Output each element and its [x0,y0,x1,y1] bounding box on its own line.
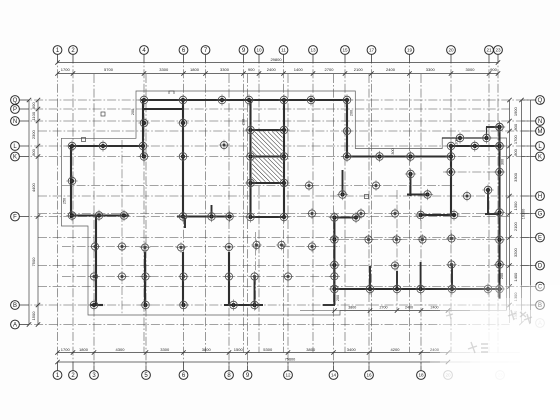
core wall mid1 [250,155,286,157]
svg-text:800: 800 [513,148,518,155]
pile column construction line x=122 [121,140,123,315]
axis bubble 6 top [179,46,188,63]
axis bubble 14 bottom [329,362,338,379]
pile row construction line y=185.5 [62,185,455,187]
svg-text:1100: 1100 [31,111,36,120]
grid line 21 (vertical axis x=489.0) [488,55,490,353]
svg-text:200: 200 [336,295,340,301]
svg-text:2100: 2100 [513,221,518,231]
svg-text:5700: 5700 [104,67,114,72]
wall stub above C x452 [451,266,453,289]
grid line A (horizontal axis y=324.5) [20,324,510,326]
svg-text:1800: 1800 [190,67,200,72]
axis bubble E right [522,233,545,242]
wall Q top [141,99,348,101]
svg-text:3000: 3000 [466,67,476,72]
svg-text:21: 21 [486,48,492,53]
faint axis bubble 20 bottom [444,371,453,380]
svg-text:1500: 1500 [31,311,36,321]
pile row construction line y=172 right [443,171,503,173]
grid line H (horizontal axis y=196.0) [38,195,536,197]
svg-text:H: H [538,194,542,200]
axis bubble 13 top [309,46,318,63]
svg-text:900: 900 [248,67,255,72]
axis bubble 10 top [255,46,264,63]
pile column construction line x=255.5 [255,232,257,310]
axis bubble P left [11,105,29,114]
grid line G (horizontal axis y=213.5) [38,213,536,215]
wall L right wing [450,145,501,147]
svg-text:19: 19 [407,48,413,53]
pile column construction line x=397 [396,190,398,310]
label 300 right edge [501,159,505,165]
label 300 near K wall [391,148,395,154]
svg-text:13: 13 [310,48,316,53]
axis bubble N left [11,117,29,126]
axis bubble N right [522,117,545,126]
core hatch upper cell [252,132,283,156]
svg-text:F: F [13,215,17,221]
axis bubble 4 top [140,46,149,63]
svg-text:18: 18 [418,373,424,378]
grid line 10 (vertical axis x=259.0) [258,55,260,353]
svg-text:Q: Q [13,98,18,104]
svg-text:800: 800 [513,123,518,130]
svg-text:3300: 3300 [160,347,170,352]
svg-text:2700: 2700 [380,306,388,310]
wall P step [143,108,183,110]
svg-text:200: 200 [455,138,459,144]
axis bubble K right [522,152,545,161]
wall K right [347,155,452,157]
svg-text:75600: 75600 [285,357,296,361]
svg-text:4200: 4200 [391,347,401,352]
svg-text:P: P [13,107,17,113]
wall vertical x183 lower [182,252,184,306]
wall vertical x451 [450,146,452,215]
wall H stub [407,194,428,196]
free pile symbols [89,126,472,282]
small square marker near H [365,195,369,199]
wall G stair stub [485,213,500,215]
axis bubble 2 top [69,46,78,63]
svg-text:2100: 2100 [354,67,364,72]
wall vertical axis4 [142,99,144,158]
wall G left stub [334,217,356,219]
svg-text:1800: 1800 [79,347,89,352]
svg-text:1500: 1500 [234,347,244,352]
grid line 20 (vertical axis x=451.0) [450,55,452,353]
svg-text:900: 900 [31,102,36,109]
wall right wing upper [486,126,500,128]
svg-text:2400: 2400 [405,306,413,310]
wall vertical x334 long [333,216,335,305]
svg-text:3300: 3300 [426,67,436,72]
axis bubble M right [522,127,545,136]
svg-text:K: K [13,155,17,161]
svg-text:2700: 2700 [325,67,335,72]
svg-text:1700: 1700 [61,347,71,352]
grid line 11 (vertical axis x=283.5) [283,55,285,353]
grid line 12 (vertical axis x=288.0) [287,74,289,371]
svg-text:Q: Q [538,98,543,104]
svg-text:N: N [13,119,17,125]
svg-text:4300: 4300 [116,347,126,352]
grid line M (horizontal axis y=131.0) [38,130,536,132]
grid line 23 (vertical axis x=498.0) [497,55,499,353]
axis bubble 20 top [447,46,456,63]
axis bubble 5 bottom [142,362,151,379]
axis bubble B right [522,301,545,310]
axis bubble Q left [11,96,29,105]
wall vertical axis15 upper [346,99,348,158]
svg-text:900: 900 [490,67,497,72]
grid line 9 (vertical axis x=243.5) [243,55,245,353]
label 200 near axis4 [131,109,135,115]
label 200 near x334 wall [336,295,340,301]
wall B stub x322 [323,304,335,306]
svg-text:2400: 2400 [267,67,277,72]
axis bubble 16 bottom [365,362,374,379]
axis bubble 7 top [201,46,210,63]
watermark fade bottom-right [430,285,560,420]
core wall right [283,100,285,218]
wall vertical x229 lower [228,252,230,306]
pile row construction line y=239.5 [340,239,503,241]
svg-text:200: 200 [350,110,354,116]
axis bubble L left [11,142,29,151]
svg-text:2300: 2300 [31,129,36,139]
svg-text:D: D [538,264,543,270]
grid line N (horizontal axis y=121.0) [20,120,536,122]
axis bubble 18 bottom [417,362,426,379]
faint axis bubble 23 bottom [496,371,505,380]
svg-text:3800: 3800 [202,347,212,352]
wall B left [90,304,103,306]
left bay dimension texts (rotated) [31,102,36,321]
svg-text:3400: 3400 [347,347,357,352]
grid line 6 (vertical axis x=183.5) [183,55,185,371]
inner bottom dimension chain y=310.5 [300,306,450,313]
axis bubble C right [522,282,545,291]
core wall top [250,129,286,131]
right dimension chain lines [507,98,530,325]
axis bubble 9 bottom [243,362,252,379]
axis bubble H right [522,192,545,201]
svg-text:800: 800 [31,148,36,155]
svg-text:1900: 1900 [513,106,518,116]
svg-text:10: 10 [256,48,262,53]
wall right edge [498,126,500,299]
wall stub above C x397 [396,271,398,289]
grid line 8 (vertical axis x=229.0) [228,74,230,371]
wall vertical axis6 [182,99,184,218]
label 200 right edge lower [500,273,504,279]
axis bubble L right [522,142,545,151]
svg-text:3800: 3800 [306,347,316,352]
wall stub above C x420 [420,262,422,289]
svg-text:17: 17 [369,48,375,53]
svg-text:16: 16 [366,373,372,378]
svg-text:23: 23 [495,48,501,53]
label 200 right wing [455,138,459,144]
svg-text:7500: 7500 [31,257,36,267]
small square marker near N [101,112,105,116]
grid line 14 (vertical axis x=333.5) [333,74,335,371]
svg-text:A: A [13,323,17,329]
label 200 near core [242,119,246,125]
axis bubble 12 bottom [284,362,293,379]
grid line Q (horizontal axis y=100.0) [20,99,536,101]
pile row construction line y=276.5 [62,276,340,278]
svg-text:200: 200 [242,119,246,125]
svg-text:K: K [538,155,542,161]
svg-text:1700: 1700 [61,67,71,72]
svg-text:E: E [538,236,542,242]
svg-text:4400: 4400 [31,182,36,192]
wall vertical left edge [70,145,72,218]
axis bubble 23 top [494,46,503,63]
label 200 near axis15 corner [350,110,354,116]
grid line 7 (vertical axis x=205.5) [205,55,207,353]
grid line F (horizontal axis y=216.5) [20,216,510,218]
axis bubble D right [522,261,545,270]
axis bubble 2 bottom [69,362,78,379]
wall stair x342 [342,170,344,195]
grid line L (horizontal axis y=146.0) [20,145,536,147]
axis bubble F left [11,212,29,221]
svg-text:300: 300 [501,159,505,165]
svg-text:3200: 3200 [513,247,518,257]
svg-text:3300: 3300 [220,67,230,72]
grid line 5 (vertical axis x=146.0) [145,74,147,371]
wall vertical x410 [410,174,412,196]
axis bubble 17 top [367,46,376,63]
label 250 left wing [63,198,67,204]
wall stub above F x211 [211,205,213,216]
grid line 13 (vertical axis x=313.0) [312,55,314,353]
axis bubble G right [522,209,545,218]
axis bubble 11 top [279,46,288,63]
axis bubble B left [11,301,29,310]
axis bubble 1 bottom [53,362,62,379]
svg-text:1700: 1700 [513,134,518,144]
grid line D (horizontal axis y=265.5) [38,265,536,267]
grid line 1 (vertical axis x=57.5) [57,55,59,371]
grid line E (horizontal axis y=237.5) [38,237,536,239]
wall vertical x486.5 [486,127,488,139]
top dimension chain lines [55,60,500,75]
wall vertical x96 [95,215,97,306]
core wall mid2 [250,182,286,184]
bottom bay dimension texts [61,347,440,362]
axis bubble 15 top [341,46,350,63]
grid line 4 (vertical axis x=144.0) [143,55,145,353]
svg-text:300: 300 [391,148,395,154]
svg-text:1400: 1400 [513,272,518,282]
watermark smudges [446,310,532,353]
axis bubble 3 bottom [90,362,99,379]
wall stub above C x370 [369,266,371,289]
wall C bottom wing [334,288,502,290]
svg-text:M: M [538,129,543,135]
core hatch lower cell [252,158,283,182]
slab edge outline [62,91,507,315]
grid line C (horizontal axis y=286.5) [38,286,536,288]
svg-text:1300: 1300 [513,201,518,211]
svg-text:1400: 1400 [294,67,304,72]
wall F left [70,214,129,216]
svg-text:11: 11 [281,48,286,53]
svg-text:3800: 3800 [348,306,356,310]
axis bubble 21 top [485,46,494,63]
axis bubble A left [11,320,29,329]
right bay dimension texts (rotated) [513,106,526,319]
grid line 3 (vertical axis x=94.0) [93,74,95,371]
svg-text:200: 200 [500,273,504,279]
svg-text:29800: 29800 [270,57,282,62]
axis bubble 19 top [405,46,414,63]
small square marker on L wall [82,138,86,142]
core wall bottom [250,216,286,218]
svg-text:B: B [13,303,17,309]
grid line B (horizontal axis y=305.0) [20,304,536,306]
wall x488 stair [487,189,489,214]
svg-text:N: N [538,119,542,125]
svg-text:250: 250 [63,198,67,204]
top bay dimension texts [61,57,498,72]
axis bubble K left [11,152,29,161]
small bracket marker above Q wall [169,91,174,94]
svg-text:200: 200 [131,109,135,115]
wall L left wing [69,145,144,147]
wall G right [419,214,455,216]
svg-text:3300: 3300 [513,172,518,182]
left dimension chain lines [27,98,40,327]
junction columns (filled) [66,94,505,310]
svg-text:2400: 2400 [386,67,396,72]
axis bubble 6 bottom [179,362,188,379]
axis bubble 9 top [239,46,248,63]
svg-text:3300: 3300 [159,67,169,72]
grid line K (horizontal axis y=156.5) [20,156,536,158]
grid line 18 (vertical axis x=421.0) [420,74,422,371]
wall right wing top edge [442,137,487,139]
wall stub below F x185 [184,218,186,228]
wall vertical x145 lower [144,252,146,306]
grid line 19 (vertical axis x=409.5) [409,55,411,353]
axis bubble 8 bottom [225,362,234,379]
svg-text:14: 14 [331,373,337,378]
pile row construction line y=246.5 [62,246,340,248]
svg-text:15: 15 [342,48,348,53]
svg-text:12: 12 [285,373,291,378]
svg-text:5300: 5300 [263,347,273,352]
grid line 16 (vertical axis x=369.0) [368,74,370,371]
wall vertical x254 lower [254,278,256,305]
grid line P (horizontal axis y=109.0) [20,108,510,110]
svg-text:16300: 16300 [522,209,526,220]
axis bubble 1 top [53,46,62,63]
axis bubble Q right [522,96,545,105]
bottom dimension chain lines [55,350,520,364]
wall F middle [177,215,232,217]
wall B middle [224,304,263,306]
grid line 9 (vertical axis x=247.5) [247,74,249,371]
svg-text:20: 20 [448,48,454,53]
core wall left [249,100,251,218]
grid line 2 (vertical axis x=73.0) [72,55,74,371]
grid line 17 (vertical axis x=371.5) [371,55,373,353]
svg-text:G: G [538,212,543,218]
grid line 15 (vertical axis x=345.0) [344,55,346,353]
faint axis bubble A right [536,319,545,328]
